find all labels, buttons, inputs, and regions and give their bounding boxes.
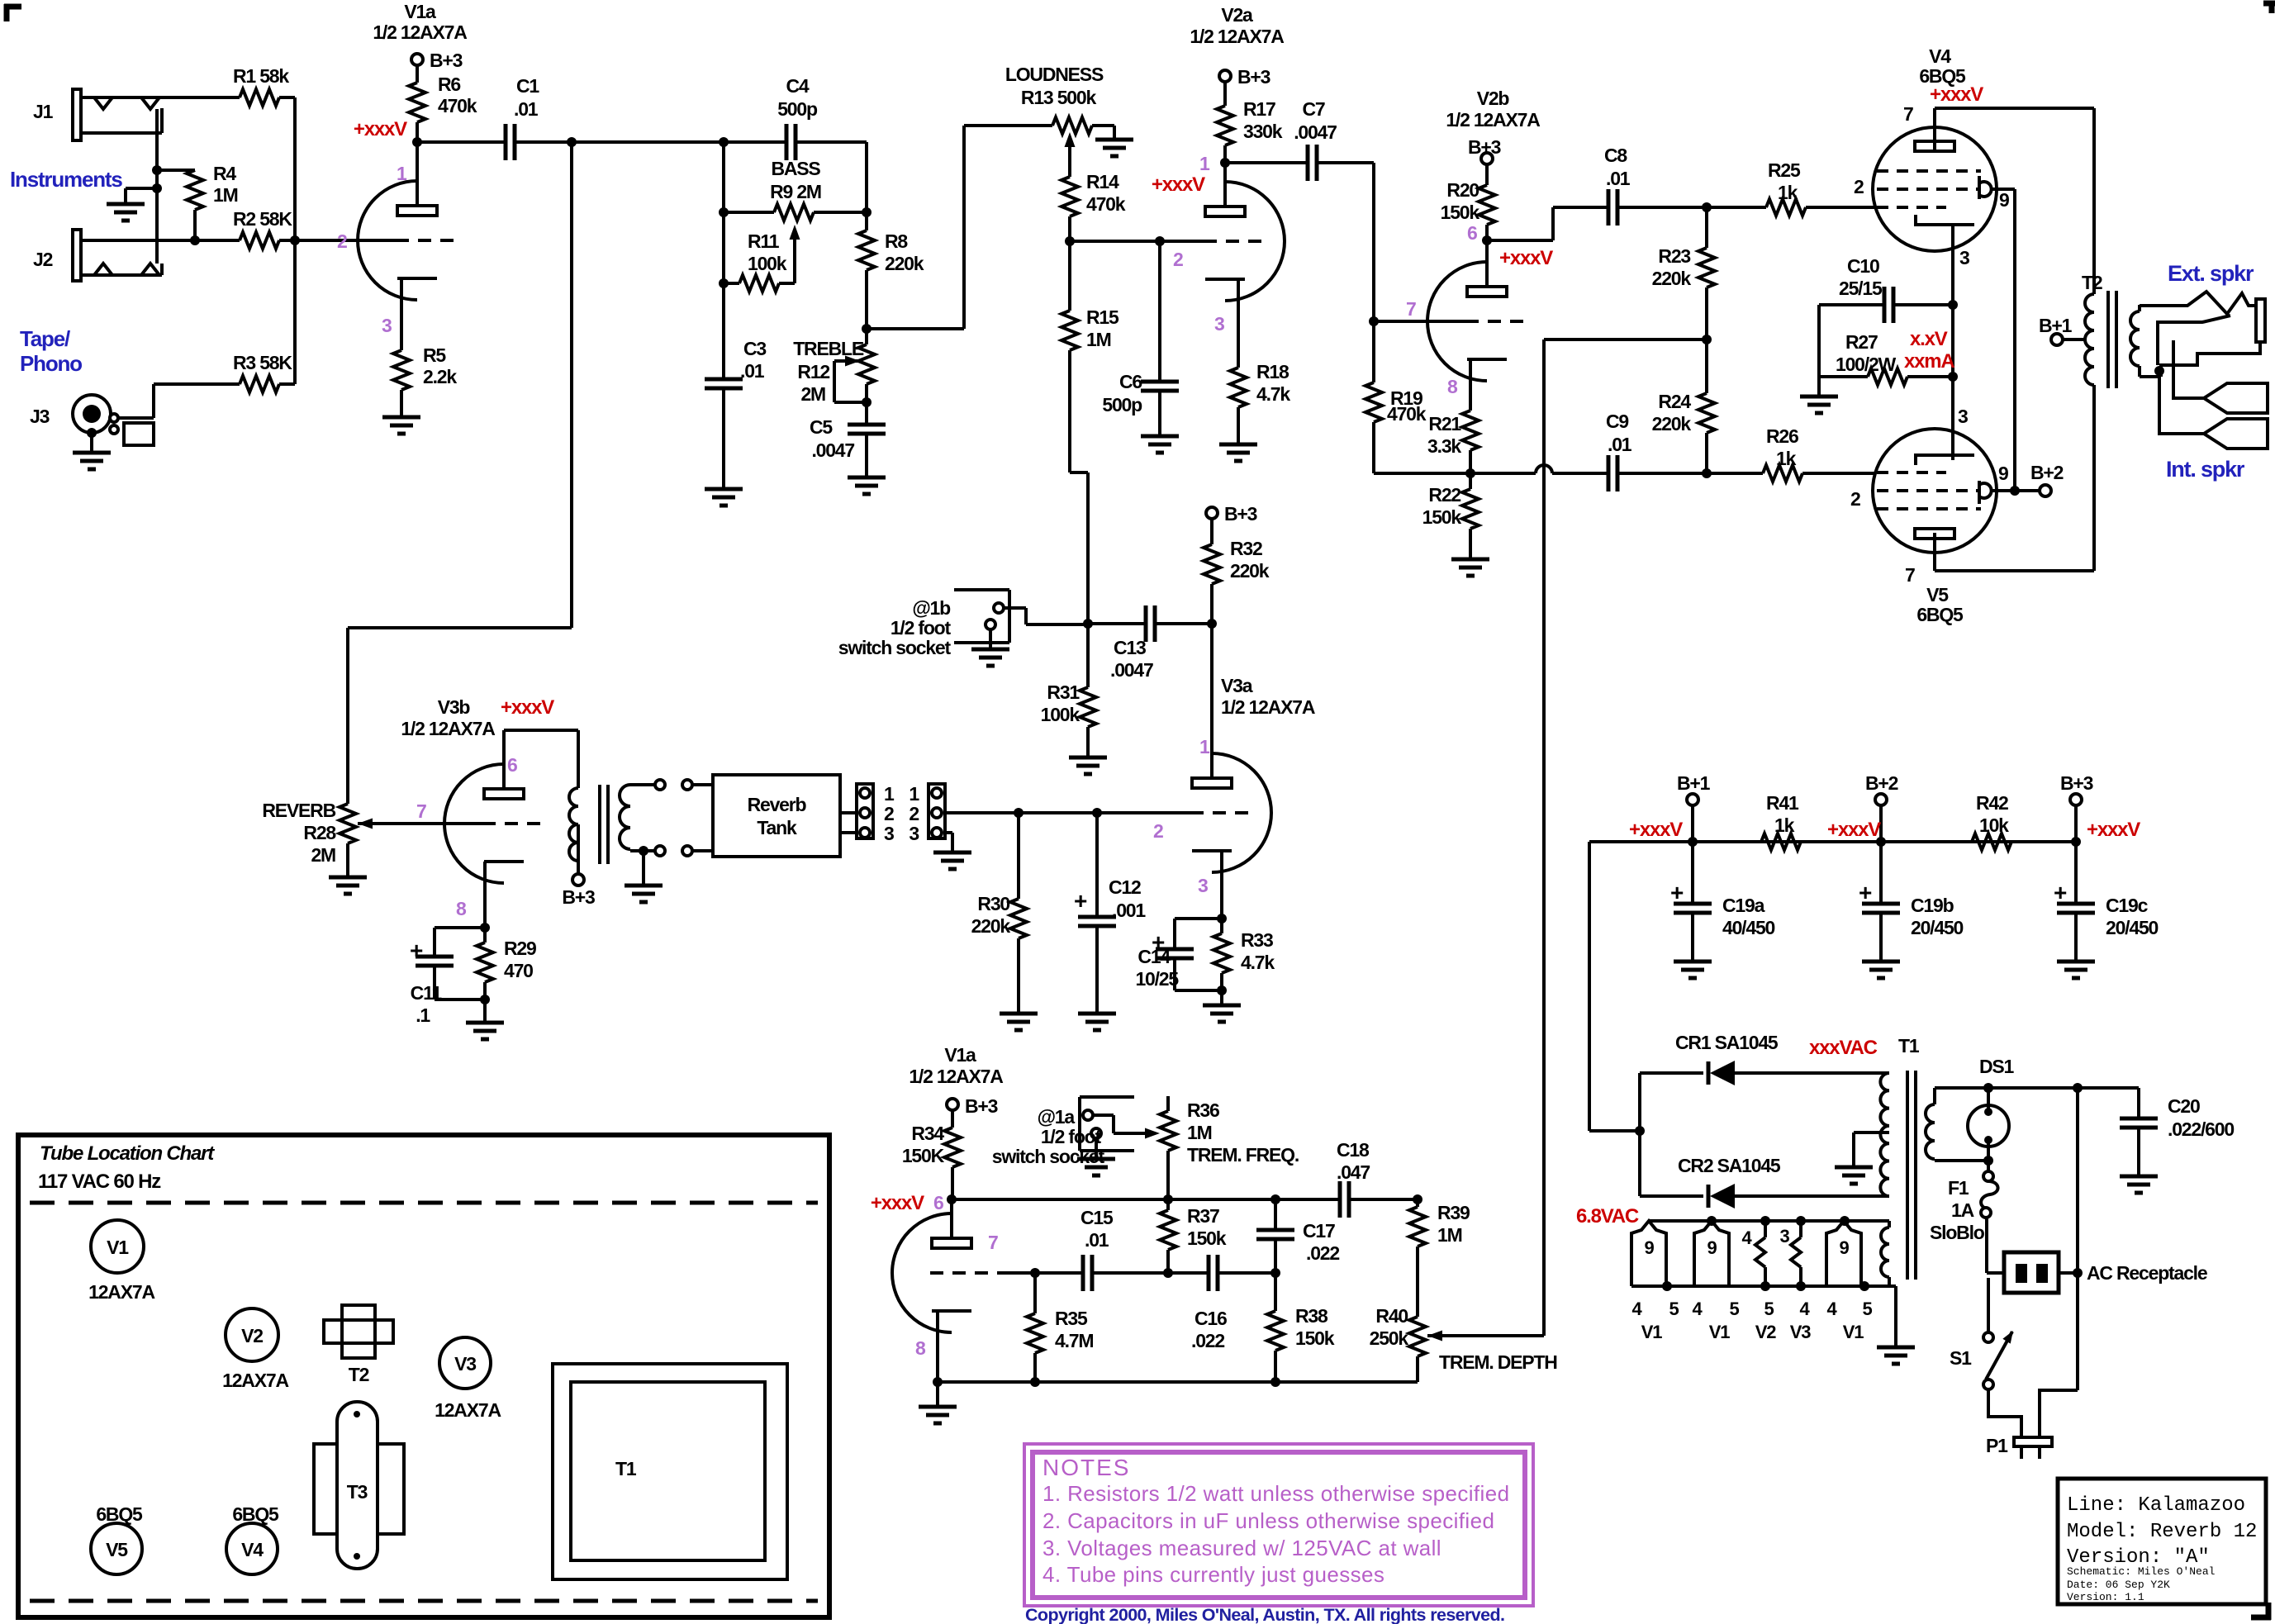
svg-text:LOUDNESS: LOUDNESS [1005, 64, 1104, 85]
ground @1a [1077, 1138, 1115, 1175]
svg-text:3: 3 [1214, 313, 1224, 335]
pot R36 1M TREM FREQ [1160, 1096, 1299, 1199]
svg-text:V5: V5 [1926, 584, 1949, 605]
svg-text:9: 9 [1998, 463, 2008, 484]
svg-text:1A: 1A [1951, 1199, 1974, 1221]
capacitor C7 .0047 [1225, 98, 1374, 181]
svg-text:V2: V2 [1755, 1322, 1776, 1342]
svg-text:Ext. spkr: Ext. spkr [2168, 261, 2254, 286]
ground R33 [1203, 1005, 1241, 1022]
svg-text:4.7M: 4.7M [1055, 1330, 1093, 1351]
wire heater bottom bus [1631, 1281, 1896, 1291]
svg-text:REVERB: REVERB [262, 800, 335, 821]
ground heater [1877, 1347, 1915, 1364]
svg-text:220k: 220k [885, 253, 924, 274]
wire C13 row [1026, 619, 1146, 629]
connector tank output 1 [840, 783, 895, 844]
resistor R41 1k [1761, 792, 1801, 850]
svg-text:V1a: V1a [944, 1044, 976, 1066]
box title block [2058, 1479, 2266, 1604]
svg-text:1M: 1M [1437, 1224, 1462, 1246]
wire input mixing bus [290, 97, 300, 384]
svg-text:C10: C10 [1847, 255, 1879, 277]
svg-text:150k: 150k [1295, 1327, 1335, 1349]
svg-text:S1: S1 [1950, 1347, 1972, 1369]
svg-text:150k: 150k [1187, 1227, 1227, 1249]
svg-text:1M: 1M [1187, 1122, 1212, 1143]
svg-text:+xxxV: +xxxV [871, 1192, 924, 1214]
pot R28 REVERB 2M [262, 800, 356, 877]
svg-text:+: + [1074, 888, 1087, 914]
svg-text:V3: V3 [1790, 1322, 1811, 1342]
chart transformer T1 box [553, 1364, 787, 1579]
pin 2 V1a [337, 230, 347, 252]
svg-text:R27: R27 [1845, 331, 1878, 353]
chart tube V1 [88, 1220, 154, 1303]
pin 7 V5 [1905, 564, 1915, 586]
svg-text:9: 9 [1839, 1237, 1849, 1258]
label Int. spkr [2166, 457, 2245, 482]
svg-text:V4: V4 [241, 1539, 264, 1560]
svg-text:C8: C8 [1604, 145, 1627, 166]
svg-text:100k: 100k [748, 253, 787, 274]
chart dashed line bottom [30, 1599, 818, 1603]
wire tone stack left drop [719, 142, 729, 379]
svg-text:1k: 1k [1776, 448, 1797, 469]
svg-text:R26: R26 [1766, 425, 1798, 447]
svg-text:.01: .01 [514, 98, 539, 120]
svg-text:C17: C17 [1303, 1220, 1335, 1242]
title model Reverb 12 [2067, 1521, 2257, 1543]
svg-text:T2: T2 [2082, 272, 2102, 293]
svg-text:R15: R15 [1086, 306, 1119, 328]
chart dashed line top [30, 1201, 818, 1205]
svg-text:5: 5 [1669, 1299, 1679, 1319]
svg-text:B+1: B+1 [1677, 772, 1711, 794]
label Instruments [10, 167, 122, 192]
pin 7 V1a-trem [988, 1232, 998, 1253]
terminal B+3 V1a [411, 50, 463, 71]
svg-text:R41: R41 [1766, 792, 1799, 814]
wire signal to reverb pot [348, 142, 572, 804]
svg-text:Line: Kalamazoo: Line: Kalamazoo [2067, 1494, 2245, 1517]
svg-text:4: 4 [1741, 1227, 1752, 1248]
label Tube Location Chart [40, 1142, 215, 1165]
ground J1/J2 [107, 188, 157, 221]
pot R13 LOUDNESS 500k [1005, 64, 1114, 134]
svg-text:V1: V1 [107, 1237, 129, 1258]
svg-text:B+2: B+2 [1865, 772, 1898, 794]
svg-text:.022/600: .022/600 [2168, 1118, 2234, 1140]
svg-text:3: 3 [382, 315, 392, 336]
svg-text:5: 5 [1862, 1299, 1872, 1319]
svg-text:3: 3 [1959, 247, 1969, 268]
svg-text:@1a: @1a [1038, 1106, 1076, 1128]
svg-text:10/25: 10/25 [1135, 968, 1179, 990]
svg-text:4: 4 [1631, 1299, 1642, 1319]
svg-text:150k: 150k [1422, 506, 1462, 528]
label +xxxV trem [871, 1192, 924, 1214]
svg-text:2: 2 [909, 803, 919, 824]
pin 8 V3b [456, 898, 467, 919]
svg-text:25/15: 25/15 [1839, 278, 1883, 299]
svg-text:7: 7 [988, 1232, 998, 1253]
ground C6 [1141, 436, 1179, 453]
svg-text:1/2 12AX7A: 1/2 12AX7A [1446, 109, 1540, 131]
svg-text:7: 7 [1406, 298, 1416, 320]
ground R31 [1069, 757, 1107, 774]
resistor R8 220k [858, 230, 924, 329]
terminal B+3 V3a [1206, 503, 1257, 525]
svg-text:Tape/: Tape/ [20, 326, 70, 351]
svg-text:R23: R23 [1658, 245, 1690, 267]
svg-text:C1: C1 [516, 75, 539, 97]
label +xxxV V2a [1152, 173, 1205, 196]
label Tape/Phono [20, 326, 82, 376]
wire V2b grid entry [1374, 320, 1465, 323]
tube V3a (half-12AX7) [1190, 675, 1315, 872]
ground trem cathode [919, 1382, 957, 1423]
svg-text:1/2 foot: 1/2 foot [1041, 1126, 1102, 1147]
resistor R19 470k [1365, 321, 1427, 473]
svg-text:1/2 12AX7A: 1/2 12AX7A [909, 1066, 1003, 1087]
wiper R28 to V3b grid [358, 819, 482, 829]
svg-text:B+3: B+3 [1224, 503, 1257, 525]
resistor R31 100k [1041, 624, 1096, 757]
note 3 [1043, 1536, 1441, 1560]
heater V1 box 3 [1826, 1221, 1861, 1286]
svg-text:220k: 220k [971, 915, 1011, 937]
wire J1/J2 switching bus [152, 109, 162, 264]
resistor R39 1M [1409, 1199, 1470, 1317]
svg-text:12AX7A: 12AX7A [222, 1370, 288, 1391]
wire V2b plate [1482, 235, 1492, 287]
svg-text:C18: C18 [1337, 1139, 1370, 1161]
transformer reverb core [600, 785, 608, 864]
svg-text:R32: R32 [1230, 538, 1262, 559]
switch S1 [1950, 1331, 2013, 1389]
transformer T2 core [2108, 291, 2116, 388]
svg-text:V4: V4 [1929, 45, 1951, 67]
node C10 top [1948, 300, 1958, 310]
svg-text:DS1: DS1 [1979, 1056, 2015, 1077]
ground C5 [848, 477, 886, 494]
pin 2 V5 [1850, 488, 1860, 510]
svg-text:B+1: B+1 [2039, 315, 2073, 336]
socket @1a footswitch [992, 1097, 1134, 1167]
svg-text:BASS: BASS [771, 158, 820, 179]
node speaker junction [2154, 366, 2164, 376]
jack Ext spkr [2140, 292, 2265, 377]
corner mark bottom-right [2251, 1603, 2271, 1620]
svg-text:1/2 12AX7A: 1/2 12AX7A [373, 21, 467, 43]
svg-text:R12: R12 [797, 361, 829, 382]
pin 9 V4 [1999, 189, 2009, 211]
ground R29 [466, 1023, 504, 1039]
svg-text:Tank: Tank [757, 817, 797, 838]
wire V2b cathode [1469, 359, 1472, 411]
jack J3 RCA [30, 384, 154, 445]
svg-text:3: 3 [884, 823, 894, 844]
ground R22 [1451, 559, 1489, 576]
svg-text:1. Resistors 1/2 watt unless o: 1. Resistors 1/2 watt unless otherwise s… [1043, 1481, 1509, 1506]
svg-text:8: 8 [915, 1337, 926, 1359]
svg-text:.0047: .0047 [1110, 659, 1153, 681]
svg-text:C11: C11 [411, 982, 443, 1004]
pot R40 TREM DEPTH 250k [1370, 1305, 1426, 1382]
svg-text:C13: C13 [1114, 637, 1146, 658]
label 6.8VAC [1576, 1205, 1639, 1227]
svg-text:1: 1 [397, 163, 407, 184]
terminal B+3 reverb [562, 874, 595, 908]
svg-text:+xxxV: +xxxV [1827, 819, 1881, 841]
svg-text:B+3: B+3 [2060, 772, 2093, 794]
resistor R1 58k [233, 65, 295, 106]
svg-text:6.8VAC: 6.8VAC [1576, 1205, 1639, 1227]
svg-text:470k: 470k [1086, 193, 1126, 215]
svg-text:R24: R24 [1658, 391, 1691, 412]
wire V4 plate to T2 [1935, 108, 2094, 294]
wire trem cathode [933, 1311, 943, 1387]
svg-text:V2: V2 [241, 1325, 263, 1346]
svg-text:C4: C4 [786, 75, 809, 97]
heater V2 element [1741, 1221, 1765, 1286]
title schematic by [2067, 1565, 2216, 1578]
wire V3a cathode [1217, 851, 1227, 924]
transformer T1 core [1907, 1071, 1916, 1280]
resistor R21 3.3k [1427, 411, 1479, 478]
resistor R27 100/2W [1819, 305, 1953, 385]
svg-text:6: 6 [933, 1192, 943, 1213]
label +xxxV V4 [1930, 83, 1983, 106]
svg-text:R28: R28 [303, 822, 336, 843]
label TREM DEPTH [1439, 1351, 1557, 1373]
svg-text:470k: 470k [1387, 403, 1427, 425]
svg-text:T1: T1 [1898, 1035, 1920, 1057]
svg-text:B+3: B+3 [430, 50, 463, 71]
svg-text:V3: V3 [454, 1353, 476, 1375]
svg-text:+xxxV: +xxxV [1152, 173, 1205, 196]
svg-text:250k: 250k [1370, 1327, 1409, 1349]
svg-text:SloBlo: SloBlo [1930, 1222, 1985, 1243]
svg-text:20/450: 20/450 [1911, 917, 1964, 938]
socket @1b footswitch [838, 590, 1026, 658]
transformer reverb secondary [620, 785, 630, 849]
box Reverb Tank [713, 775, 840, 857]
pin 3 V3a [1198, 875, 1208, 896]
transformer T1 mains primary [1926, 1088, 1935, 1161]
heater pin labels [1631, 1299, 1872, 1319]
svg-text:+xxxV: +xxxV [1629, 819, 1683, 841]
svg-text:R9 2M: R9 2M [770, 181, 821, 202]
svg-text:+: + [1859, 880, 1872, 905]
corner mark top-left [4, 4, 21, 21]
resistor R23 220k [1652, 207, 1715, 340]
svg-text:B+3: B+3 [1237, 66, 1270, 88]
resistor R15 1M [1062, 241, 1119, 472]
svg-text:470: 470 [504, 960, 533, 981]
svg-text:TREM. DEPTH: TREM. DEPTH [1439, 1351, 1557, 1373]
diode CR1 SA1045 [1640, 1032, 1889, 1085]
svg-text:220k: 220k [1652, 413, 1692, 434]
svg-text:12AX7A: 12AX7A [435, 1399, 501, 1421]
svg-text:500p: 500p [777, 98, 818, 120]
ground @1b [971, 629, 1009, 666]
svg-text:R18: R18 [1256, 361, 1289, 382]
svg-text:4. Tube pins currently just gu: 4. Tube pins currently just guesses [1043, 1562, 1384, 1587]
wire heater winding to ground [1889, 1277, 1896, 1347]
svg-text:1M: 1M [1086, 329, 1111, 350]
svg-text:V2b: V2b [1477, 88, 1510, 109]
svg-text:TREBLE: TREBLE [793, 338, 864, 359]
terminal B+3 rail [2060, 772, 2093, 842]
svg-text:.01: .01 [740, 360, 765, 382]
svg-text:9: 9 [1707, 1237, 1717, 1258]
svg-text:1/2 12AX7A: 1/2 12AX7A [1221, 696, 1315, 718]
capacitor C3 .01 [705, 338, 766, 489]
plug P1 [1986, 1389, 2078, 1459]
capacitor C1 .01 [417, 75, 572, 160]
svg-text:1/2 12AX7A: 1/2 12AX7A [401, 718, 495, 739]
resistor R11 100k [724, 230, 795, 292]
svg-text:+xxxV: +xxxV [354, 118, 407, 140]
capacitor C15 .01 [1081, 1207, 1114, 1291]
svg-text:R38: R38 [1295, 1305, 1328, 1327]
wire V3a plate column [1207, 619, 1217, 778]
label +xxxV B3 [2087, 819, 2140, 841]
svg-text:R1 58k: R1 58k [233, 65, 289, 87]
pot R12 TREBLE 2M [793, 329, 875, 425]
label 117 VAC 60 Hz [38, 1171, 161, 1193]
wire B+ rail [1589, 837, 2081, 847]
svg-text:Int. spkr: Int. spkr [2166, 457, 2245, 482]
capacitor C19a 40/450 [1670, 842, 1775, 962]
svg-text:V1: V1 [1641, 1322, 1662, 1342]
pin 1 V3a [1199, 736, 1210, 757]
svg-text:10k: 10k [1979, 814, 2009, 836]
svg-text:6: 6 [1467, 222, 1477, 244]
pin 3 V4 [1959, 247, 1969, 268]
svg-text:V2a: V2a [1221, 4, 1253, 26]
svg-text:5: 5 [1764, 1299, 1774, 1319]
svg-text:V1a: V1a [404, 1, 436, 22]
svg-text:Instruments: Instruments [10, 167, 122, 192]
svg-text:.01: .01 [1608, 434, 1632, 455]
wiper R12 [834, 356, 867, 403]
svg-text:Schematic: Miles O'Neal: Schematic: Miles O'Neal [2067, 1565, 2216, 1578]
capacitor C16 .022 [1191, 1255, 1227, 1351]
svg-text:R39: R39 [1437, 1202, 1470, 1223]
svg-text:.047: .047 [1337, 1161, 1370, 1183]
svg-text:2.2k: 2.2k [423, 366, 457, 387]
wire V2a plate [1220, 158, 1230, 207]
svg-text:6BQ5: 6BQ5 [232, 1503, 279, 1525]
svg-text:.0047: .0047 [811, 439, 854, 461]
resistor R33 4.7k [1213, 919, 1275, 1005]
wire reverb secondary bottom [630, 846, 655, 856]
ground T1 center tap [1835, 1167, 1873, 1184]
svg-text:CR1 SA1045: CR1 SA1045 [1675, 1032, 1779, 1053]
terminal B+2 rail [1865, 772, 1898, 842]
diode CR2 SA1045 [1640, 1155, 1889, 1209]
svg-text:7: 7 [1905, 564, 1915, 586]
svg-text:R40: R40 [1375, 1305, 1408, 1327]
note 2 [1043, 1508, 1494, 1533]
heater tube labels [1641, 1322, 1864, 1342]
svg-text:R8: R8 [885, 230, 908, 252]
svg-text:1: 1 [1199, 153, 1210, 174]
svg-text:R13 500k: R13 500k [1021, 87, 1097, 108]
svg-text:xxxVAC: xxxVAC [1809, 1037, 1878, 1059]
svg-text:R21: R21 [1428, 413, 1461, 434]
svg-text:Phono: Phono [20, 351, 82, 376]
resistor R6 470k [409, 64, 477, 142]
svg-text:+xxxV: +xxxV [2087, 819, 2140, 841]
svg-text:12AX7A: 12AX7A [88, 1281, 154, 1303]
pin 2 V4 [1854, 176, 1864, 197]
svg-text:100/2W: 100/2W [1836, 354, 1897, 375]
ground C3 [705, 489, 743, 506]
connector reverb drive plugs [655, 780, 713, 790]
svg-text:.0047: .0047 [1294, 121, 1337, 143]
svg-text:J1: J1 [33, 101, 54, 122]
svg-text:C20: C20 [2168, 1095, 2200, 1117]
transformer T1 HV winding [1880, 1035, 1919, 1196]
svg-text:V3a: V3a [1221, 675, 1253, 696]
svg-text:C9: C9 [1606, 411, 1628, 432]
terminal B+3 V2a [1219, 66, 1270, 88]
resistor R3 58K [154, 352, 295, 392]
title version A [2067, 1546, 2210, 1569]
resistor R30 220k [971, 813, 1027, 1014]
svg-text:Copyright 2000, Miles O'Neal,: Copyright 2000, Miles O'Neal, Austin, TX… [1025, 1605, 1504, 1624]
svg-text:1/2 foot: 1/2 foot [891, 617, 952, 639]
label NOTES title [1043, 1455, 1130, 1480]
svg-text:4.7k: 4.7k [1241, 952, 1275, 973]
svg-text:1/2 12AX7A: 1/2 12AX7A [1190, 26, 1284, 47]
wire V3b plate to reverb transformer [504, 730, 578, 789]
capacitor C5 .0047 [810, 416, 886, 477]
wire trem bottom bus [938, 1377, 1418, 1387]
lamp DS1 [1968, 1056, 2015, 1171]
svg-text:C3: C3 [743, 338, 766, 359]
jack J1 [33, 89, 240, 140]
ground R18 [1219, 444, 1257, 461]
pin 3 V2a [1214, 313, 1224, 335]
svg-text:AC Receptacle: AC Receptacle [2087, 1262, 2207, 1284]
svg-text:T2: T2 [349, 1364, 369, 1385]
svg-text:+: + [1670, 880, 1684, 905]
wire mains top bus [1935, 1083, 2139, 1093]
resistor R26 1k [1707, 425, 1875, 482]
wire rectifier cathode bus [1635, 1073, 1645, 1196]
svg-text:R37: R37 [1187, 1205, 1219, 1227]
chart tube V2 [222, 1308, 288, 1391]
svg-text:6: 6 [507, 754, 517, 776]
svg-text:1k: 1k [1774, 814, 1795, 836]
pin 1 V2a [1199, 153, 1210, 174]
wire C7 down to V2b grid [1369, 163, 1379, 326]
svg-text:Date: 06 Sep Y2K: Date: 06 Sep Y2K [2067, 1579, 2170, 1591]
pin 7 V3b [416, 800, 426, 822]
svg-text:117 VAC 60 Hz: 117 VAC 60 Hz [38, 1171, 161, 1193]
wire V1a grid [295, 239, 396, 242]
svg-text:150k: 150k [1441, 202, 1480, 223]
svg-text:8: 8 [1447, 376, 1458, 397]
ground R30 [1000, 1014, 1038, 1030]
svg-text:2: 2 [1850, 488, 1860, 510]
svg-text:.01: .01 [1085, 1229, 1109, 1251]
